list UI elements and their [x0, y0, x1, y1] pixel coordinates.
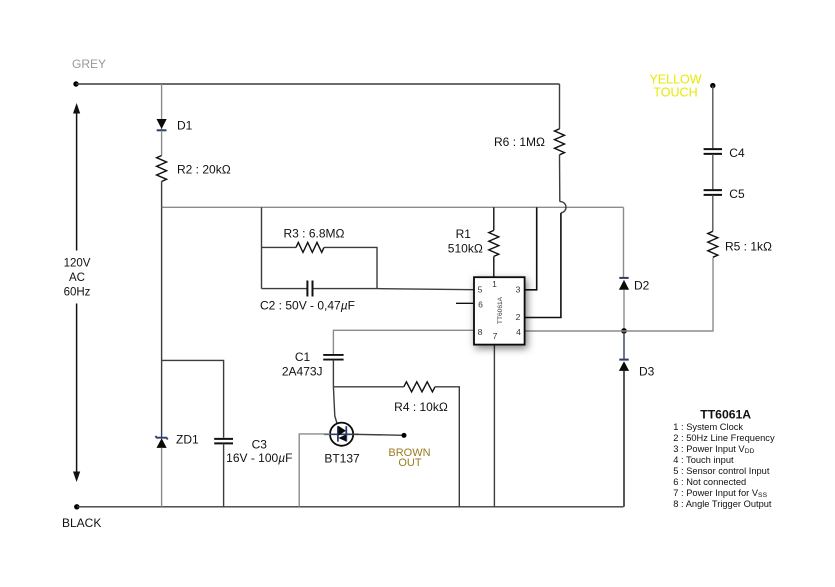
wire touch to C4 [712, 86, 714, 149]
svg-text:R2 : 20kΩ: R2 : 20kΩ [177, 163, 231, 177]
svg-text:D3: D3 [639, 364, 655, 378]
svg-text:C3: C3 [252, 438, 268, 452]
wire top rail [76, 83, 560, 85]
wire C3 branch [162, 360, 224, 437]
node GREY terminal dot [73, 81, 78, 86]
capacitor C2 [307, 281, 312, 297]
capacitor C5 [704, 190, 722, 195]
svg-text:C1: C1 [295, 350, 311, 364]
svg-text:8: 8 [478, 327, 483, 337]
wire R3 left lead [262, 246, 297, 248]
svg-text:1: 1 [492, 279, 497, 289]
wire left branch mid segment [161, 207, 163, 430]
svg-text:R6 : 1MΩ: R6 : 1MΩ [494, 135, 545, 149]
node touch terminal dot [710, 83, 715, 88]
resistor R6 [555, 129, 565, 155]
IC U1 TT6061A [474, 277, 525, 344]
wire pin6 stub [456, 302, 474, 304]
svg-text:4: 4 [516, 327, 521, 337]
svg-text:BT137: BT137 [324, 452, 360, 466]
wire hop to pin2 [525, 213, 561, 318]
wire pin7 to bottom rail [493, 345, 495, 507]
svg-text:C4: C4 [729, 146, 745, 160]
wire rail2 [162, 206, 624, 208]
svg-text:5 : Sensor control Input: 5 : Sensor control Input [673, 466, 770, 476]
svg-text:C2 : 50V - 0,47µF: C2 : 50V - 0,47µF [260, 298, 355, 312]
capacitor C1 [323, 355, 343, 360]
wire D3 to bottom rail [623, 371, 625, 507]
wire pin8 to C1 [333, 330, 474, 354]
capacitor C4 [704, 149, 722, 154]
svg-text:R4 : 10kΩ: R4 : 10kΩ [394, 400, 448, 414]
wire R4 left lead [333, 386, 403, 388]
resistor R4 [404, 382, 435, 392]
svg-text:R1: R1 [456, 227, 472, 241]
120V AC source annotation arrow down [76, 304, 78, 473]
wire R2 to rail2 [161, 182, 163, 208]
wire ZD1 to bottom rail [161, 448, 163, 507]
wire junction to D3 [623, 331, 625, 359]
svg-text:OUT: OUT [398, 457, 422, 469]
wire rail2 corner to D2 [623, 207, 625, 277]
wire C1 to R4 node [332, 360, 334, 387]
svg-text:60Hz: 60Hz [64, 287, 91, 299]
wire R4 right lead to bottom rail [435, 387, 459, 507]
wire R3C2 block left vertical [261, 207, 263, 288]
svg-text:4 : Touch input: 4 : Touch input [673, 455, 734, 465]
svg-text:7 : Power Input for VSS: 7 : Power Input for VSS [673, 488, 767, 499]
svg-text:5: 5 [478, 285, 483, 295]
resistor R5 [708, 231, 718, 257]
wire C2 left lead [262, 288, 307, 290]
wire C2 to pin5 [313, 289, 474, 290]
svg-text:1 : System Clock: 1 : System Clock [673, 422, 743, 432]
120V AC source annotation arrow up [76, 113, 78, 251]
svg-text:ZD1: ZD1 [176, 433, 199, 447]
wire triac MT1 to bottom rail [299, 434, 330, 507]
svg-text:D2: D2 [634, 278, 650, 292]
wire left branch top segment [161, 84, 163, 119]
triac Q1 BT137 [324, 423, 359, 446]
svg-text:BLACK: BLACK [62, 516, 101, 530]
wire bottom rail [77, 506, 624, 508]
resistor R2 [157, 156, 167, 182]
resistor R1 [489, 230, 499, 256]
svg-text:D1: D1 [177, 119, 193, 133]
wire pin4 to touch branch [525, 258, 713, 331]
svg-text:7: 7 [493, 331, 498, 341]
svg-text:R5 : 1kΩ: R5 : 1kΩ [725, 240, 772, 254]
zener diode ZD1 [155, 430, 167, 448]
svg-text:8 : Angle Trigger Output: 8 : Angle Trigger Output [673, 499, 772, 509]
wire triac MT2 to brown out [353, 434, 404, 435]
wire R6 top drop [559, 84, 561, 129]
svg-text:2A473J: 2A473J [282, 365, 323, 379]
svg-text:2 : 50Hz Line Frequency: 2 : 50Hz Line Frequency [673, 433, 775, 443]
svg-text:GREY: GREY [72, 57, 106, 71]
svg-text:AC: AC [69, 272, 85, 284]
wire hop over rail2 [560, 202, 566, 213]
wire R6 to hop [559, 155, 561, 202]
node BLACK terminal dot [74, 504, 79, 509]
diode D2 [619, 278, 629, 290]
diode D3 [619, 360, 629, 371]
wire R3 right lead [324, 247, 377, 288]
svg-text:3 : Power Input VDD: 3 : Power Input VDD [673, 444, 754, 455]
resistor R3 [296, 242, 324, 252]
node brown out dot [402, 433, 407, 438]
wire C5 to R5 [712, 195, 714, 231]
label TT6061A legend [673, 407, 775, 509]
wire D2 to junction [623, 290, 625, 331]
capacitor C3 [214, 439, 233, 444]
wire C3 to bottom rail [223, 443, 225, 506]
svg-text:TT6061A: TT6061A [700, 407, 751, 421]
svg-text:510kΩ: 510kΩ [448, 242, 483, 256]
wire pin3 riser [525, 207, 537, 289]
svg-text:6 : Not connected: 6 : Not connected [673, 477, 746, 487]
svg-text:6: 6 [478, 300, 483, 310]
wire R1 top lead [493, 207, 495, 230]
wire C4 to C5 [712, 154, 714, 189]
svg-text:3: 3 [516, 285, 521, 295]
svg-text:120V: 120V [64, 258, 91, 270]
svg-text:2: 2 [516, 312, 521, 322]
svg-text:YELLOW: YELLOW [649, 73, 701, 87]
svg-text:TOUCH: TOUCH [653, 86, 697, 100]
svg-text:TT6061A: TT6061A [497, 296, 504, 324]
wire gate from R4 node to triac [333, 387, 338, 427]
svg-text:16V - 100µF: 16V - 100µF [226, 451, 292, 465]
diode D1 [157, 119, 167, 130]
wire D1 to R2 [161, 130, 163, 155]
svg-text:R3 : 6.8MΩ: R3 : 6.8MΩ [284, 227, 345, 241]
node junction pin4 [621, 328, 627, 334]
svg-text:C5: C5 [729, 187, 745, 201]
wire R1 to pin1 [493, 256, 495, 277]
